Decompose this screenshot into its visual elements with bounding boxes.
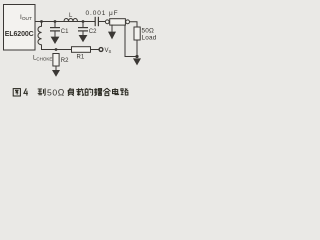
ground (C2) arrow symbol: [79, 35, 88, 42]
coax connector left terminal: [105, 20, 109, 24]
caption char de (of): [85, 88, 92, 95]
ground (R2) arrow symbol: [52, 70, 60, 77]
wire coax far shield to ground rail: [125, 25, 137, 56]
ground (C1) arrow symbol: [51, 37, 60, 44]
wire IOUT from box to node A: [35, 21, 95, 23]
svg-text:50Ω: 50Ω: [142, 28, 155, 35]
svg-text:0.001 μF: 0.001 μF: [86, 10, 119, 17]
ground (coax near shield) stem: [111, 25, 113, 32]
wire R2 bottom: [55, 66, 57, 70]
wire bottom rail choke to R1: [42, 49, 72, 51]
caption char zai (load-2): [76, 88, 84, 96]
caption figure 4 (Chinese glyph strokes): [13, 88, 45, 96]
capacitor C3 0.001uF coupling (series plates): [95, 17, 98, 25]
node C junction dot (C2 tap): [82, 20, 85, 23]
IC U1 EL6200C box: [4, 5, 36, 51]
node B junction dot (C1 tap): [54, 20, 57, 23]
wire after coupling cap to coax: [99, 21, 106, 23]
svg-text:Load: Load: [142, 35, 157, 42]
resistor R1 body: [72, 47, 91, 53]
ground (coax near shield) arrow symbol: [108, 32, 116, 40]
caption char ou (couple-1): [94, 88, 102, 96]
junction dot load/shield: [135, 55, 138, 58]
capacitor C1: [51, 23, 60, 37]
svg-text:LCHOKE: LCHOKE: [33, 55, 52, 61]
node Vs terminal circle: [99, 48, 103, 52]
svg-text:C2: C2: [89, 29, 97, 35]
resistor RL 50 ohm load body: [134, 27, 140, 40]
coax connector right terminal: [126, 20, 130, 24]
caption char dian (electric): [113, 88, 119, 94]
svg-text:R1: R1: [77, 55, 85, 61]
svg-text:C1: C1: [61, 29, 69, 35]
inductor LCHOKE coil: [38, 22, 42, 50]
svg-text:Ω: Ω: [58, 88, 65, 98]
svg-text:VS: VS: [105, 48, 112, 54]
caption char lu (circuit): [121, 88, 129, 95]
caption digit 4: [24, 88, 28, 95]
ground (load) arrow symbol: [133, 58, 141, 65]
svg-text:EL6200C: EL6200C: [5, 31, 34, 38]
wire coax to load corner: [130, 22, 137, 27]
caption char he (couple-2): [103, 88, 110, 95]
resistor R2 body: [53, 54, 59, 67]
node A junction dot (choke tap): [40, 20, 43, 23]
junction dot R2 tap: [55, 48, 58, 51]
capacitor C2: [79, 23, 88, 35]
svg-text:R2: R2: [61, 58, 69, 64]
wire R1 to Vs terminal: [91, 49, 100, 51]
svg-text:50: 50: [47, 88, 58, 98]
caption char fu (load-1): [68, 88, 74, 96]
inductor L (series): [64, 19, 78, 22]
coax cable body: [110, 19, 126, 25]
wire load bottom: [136, 40, 138, 57]
caption char tu (figure): [13, 89, 20, 96]
caption char dao (to): [38, 88, 45, 95]
